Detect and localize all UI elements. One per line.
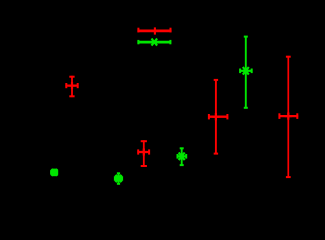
red point H plus marker	[285, 113, 292, 120]
green point J X marker	[115, 175, 121, 182]
red point F y-error bar	[214, 79, 218, 155]
green point I y-error bar	[52, 169, 56, 176]
red point F x-error bar	[208, 114, 228, 119]
red point C y-error bar	[69, 76, 74, 97]
green point J y-error bar	[117, 173, 120, 185]
green point E y-error bar	[180, 148, 184, 165]
green point G X marker	[243, 67, 249, 75]
red point D x-error bar	[137, 149, 150, 154]
red point A x-error bar	[137, 28, 171, 33]
red point D plus marker	[140, 149, 147, 156]
green point E x-error bar	[177, 154, 187, 159]
red point A plus marker	[151, 27, 158, 34]
green point B X marker	[152, 39, 158, 46]
red point H y-error bar	[286, 56, 291, 178]
red point D y-error bar	[141, 140, 147, 167]
green point E X marker	[179, 153, 185, 161]
green point G y-error bar	[244, 36, 248, 108]
red point C x-error bar	[65, 83, 78, 88]
red point F plus marker	[212, 113, 219, 120]
red point C plus marker	[69, 82, 76, 89]
green point I x-error bar	[50, 170, 58, 175]
green point G x-error bar	[240, 69, 253, 74]
green point B x-error bar	[137, 40, 171, 44]
green point J x-error bar	[114, 176, 122, 181]
red point H x-error bar	[279, 113, 299, 119]
green point I X marker	[51, 169, 57, 176]
